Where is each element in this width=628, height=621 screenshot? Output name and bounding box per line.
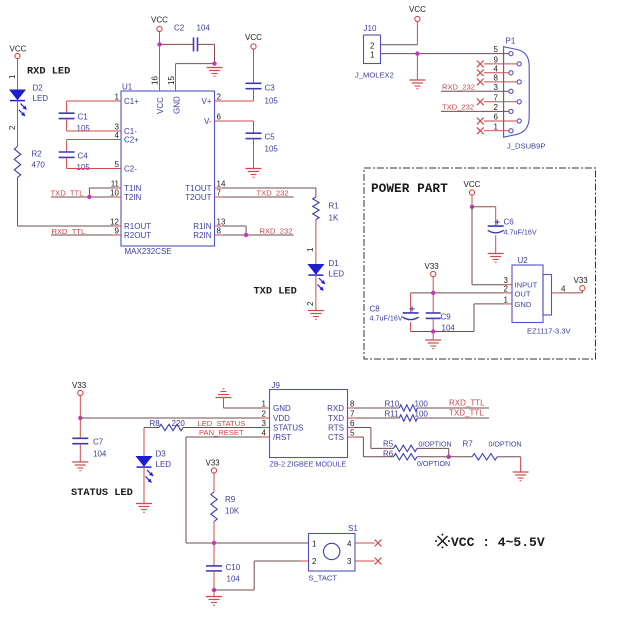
wire R7 to ground	[497, 457, 520, 472]
wire junction to R7	[449, 456, 472, 458]
connector J10	[355, 24, 394, 80]
svg-text:LED_STATUS: LED_STATUS	[198, 419, 246, 428]
svg-text:R2IN: R2IN	[193, 231, 211, 240]
wire D2 cathode to R2	[17, 101, 19, 147]
net label LED_STATUS	[198, 419, 246, 428]
wire RXD_TTL to R2OUT	[51, 234, 113, 236]
power symbol V33 (C9)	[425, 262, 440, 277]
pin number 2 of D1	[306, 301, 315, 306]
svg-text:LED: LED	[156, 460, 172, 469]
wire V33 to R9	[213, 473, 215, 492]
svg-text:TXD_TTL: TXD_TTL	[51, 189, 84, 198]
wire C2 to ground corner	[198, 44, 215, 63]
svg-text:TXD_232: TXD_232	[257, 188, 289, 197]
J9 pin numbers left	[262, 400, 267, 438]
J9 right pin stubs	[348, 408, 356, 437]
wire R6 right to junction	[417, 456, 449, 458]
ground (C7)	[72, 462, 88, 471]
svg-text:7: 7	[494, 93, 499, 102]
svg-text:4.7uF/16V: 4.7uF/16V	[504, 228, 537, 237]
svg-text:1: 1	[115, 93, 120, 102]
wire CTS pin5 to R6	[355, 437, 394, 457]
svg-text:2: 2	[370, 42, 375, 51]
svg-text:4: 4	[115, 131, 120, 140]
svg-text:2: 2	[8, 125, 17, 130]
svg-text:V33: V33	[72, 381, 87, 390]
junction R5 R6 R7	[447, 455, 451, 459]
capacitor C10	[206, 563, 241, 584]
capacitor C9	[426, 313, 456, 333]
svg-text:8: 8	[350, 400, 355, 409]
svg-text:VCC: VCC	[464, 180, 481, 189]
svg-text:TXD_TTL: TXD_TTL	[449, 408, 484, 417]
label TXD LED	[254, 286, 297, 298]
svg-text:12: 12	[110, 218, 119, 227]
net label TXD_232	[257, 188, 289, 197]
svg-text:J_DSUB9P: J_DSUB9P	[507, 142, 545, 151]
capacitor C4	[59, 152, 91, 173]
wire R2 to R1OUT pin 12	[18, 178, 114, 227]
svg-text:/RST: /RST	[273, 433, 291, 442]
resistor R7	[463, 440, 522, 460]
svg-text:R6: R6	[383, 449, 394, 458]
svg-text:4: 4	[347, 540, 352, 549]
svg-text:4: 4	[494, 64, 499, 73]
power symbol V33 (R9)	[206, 459, 221, 474]
resistor R8	[150, 419, 186, 431]
svg-text:105: 105	[265, 145, 279, 154]
svg-text:0/OPTION: 0/OPTION	[417, 460, 450, 468]
svg-text:VDD: VDD	[273, 414, 290, 423]
wire C8 to bottom rail	[410, 322, 412, 331]
svg-text:GND: GND	[273, 404, 291, 413]
wire U2 pin4 to V33	[560, 291, 583, 293]
label POWER PART	[371, 181, 448, 196]
wire S1 pin2 loop	[214, 561, 309, 590]
capacitor C2	[174, 24, 210, 52]
wire V33 down	[79, 396, 81, 418]
wire junction to C7	[79, 418, 81, 438]
power symbol VCC (power part)	[464, 180, 481, 195]
LED D2	[10, 84, 48, 117]
U2 pin numbers	[504, 276, 566, 304]
junction V33 rail	[431, 291, 435, 295]
svg-text:POWER PART: POWER PART	[371, 181, 448, 196]
wire R10 right RXD_TTL	[417, 407, 489, 409]
svg-text:1K: 1K	[329, 214, 339, 223]
svg-text:C2-: C2-	[124, 165, 137, 174]
svg-text:T1IN: T1IN	[124, 184, 142, 193]
svg-text:2: 2	[217, 93, 222, 102]
wire VCC to D2 anode	[17, 59, 19, 90]
svg-text:EZ1117-3.3V: EZ1117-3.3V	[527, 327, 572, 336]
wire junction to ground	[213, 590, 215, 597]
svg-text:11: 11	[111, 180, 120, 189]
module J9 ZB-2 ZIGBEE	[270, 381, 348, 469]
wire T1OUT to R1	[223, 188, 316, 197]
pin number 1 of D2	[8, 74, 17, 79]
svg-text:RXD LED: RXD LED	[27, 66, 70, 78]
svg-text:R7: R7	[463, 440, 474, 449]
svg-text:9: 9	[494, 55, 499, 64]
wire junction to ground	[416, 54, 418, 80]
svg-text:6: 6	[217, 113, 222, 122]
svg-text:105: 105	[265, 97, 279, 106]
svg-text:V33: V33	[574, 276, 589, 285]
svg-text:C8: C8	[370, 305, 381, 314]
svg-text:15: 15	[167, 76, 176, 85]
svg-text:S_TACT: S_TACT	[309, 574, 338, 583]
svg-text:C6: C6	[504, 218, 515, 227]
S1 pin3 no-connect	[355, 558, 381, 565]
svg-text:104: 104	[93, 450, 107, 459]
wire VCC to junction	[471, 195, 473, 207]
svg-text:OUT: OUT	[515, 290, 531, 299]
junction C9 ground	[431, 329, 435, 333]
wire J10 pin1 to DSUB pin5	[381, 53, 509, 55]
wire junction to C10	[213, 543, 215, 566]
op-amp U1 MAX232CSE box	[121, 83, 215, 257]
P1 no-connect pins with X marks	[477, 61, 517, 135]
ground (C10)	[206, 597, 222, 606]
wire D3 to ground	[143, 467, 145, 503]
S1 pin4 no-connect	[355, 540, 381, 547]
ground (D1)	[308, 311, 324, 320]
label RXD LED	[27, 66, 70, 78]
svg-text:100: 100	[415, 409, 429, 418]
wire R2IN RXD_232	[223, 234, 294, 236]
svg-text:U2: U2	[518, 256, 529, 265]
junction VCC C6	[470, 205, 474, 209]
wire RXD_232 to P1 pin3	[441, 90, 509, 92]
svg-text:P1: P1	[506, 37, 516, 46]
net label RXD_TTL (R10)	[449, 398, 485, 407]
resistor R9	[211, 492, 240, 522]
J9 left pin stubs	[262, 408, 270, 437]
svg-text:V33: V33	[425, 262, 440, 271]
svg-text:5: 5	[115, 160, 120, 169]
note VCC 4~5.5V	[435, 534, 545, 550]
J9 pin names left	[273, 404, 303, 442]
svg-text:9: 9	[115, 227, 120, 236]
svg-text:V33: V33	[206, 459, 221, 468]
wire C4 bottom to pin5	[67, 157, 113, 168]
svg-text:8: 8	[494, 73, 499, 82]
svg-text:VCC : 4~5.5V: VCC : 4~5.5V	[451, 535, 545, 550]
U2 pin stubs	[504, 285, 560, 304]
wire C9 branch	[432, 293, 434, 313]
ground above J9 (inverted)	[216, 389, 232, 398]
net label PAN_RESET	[199, 428, 244, 437]
svg-text:3: 3	[262, 419, 267, 428]
svg-text:5: 5	[494, 45, 499, 54]
svg-text:LED: LED	[329, 270, 345, 279]
svg-text:R2: R2	[32, 150, 43, 159]
svg-text:RXD: RXD	[327, 404, 344, 413]
svg-text:104: 104	[197, 24, 211, 33]
svg-text:J9: J9	[272, 381, 281, 390]
svg-text:2: 2	[504, 284, 509, 293]
ground (R7)	[513, 472, 529, 481]
svg-text:D1: D1	[329, 259, 340, 268]
capacitor C5	[246, 133, 279, 154]
wire RST to switch	[186, 437, 309, 543]
wire C5 to ground	[253, 139, 255, 169]
wire TXD_TTL to T2IN	[51, 196, 113, 198]
capacitor C6	[488, 218, 537, 237]
svg-text:1: 1	[262, 400, 267, 409]
svg-text:470: 470	[32, 161, 46, 170]
wire pin15 to ground net	[176, 64, 215, 91]
svg-text:8: 8	[217, 227, 222, 236]
U1 pin numbers top 16 15	[151, 76, 177, 85]
svg-text:1: 1	[504, 295, 509, 304]
net label RXD_232	[260, 227, 293, 236]
wire V33 to rail	[432, 277, 434, 293]
svg-text:220: 220	[172, 419, 186, 428]
U1 pin numbers right	[217, 93, 226, 236]
resistor R1	[313, 197, 340, 223]
wire C1 bottom to pin3	[67, 119, 113, 131]
connector P1 J_DSUB9P	[504, 37, 546, 151]
junction C10 ground	[212, 588, 216, 592]
svg-text:0/OPTION: 0/OPTION	[489, 441, 522, 449]
svg-text:C7: C7	[93, 438, 104, 447]
J9 pin names right	[327, 404, 344, 442]
junction C2 ground	[212, 61, 216, 65]
ground (J10)	[409, 80, 425, 89]
svg-text:R1OUT: R1OUT	[124, 222, 151, 231]
svg-text:MAX232CSE: MAX232CSE	[125, 247, 172, 256]
J9 pin numbers right	[350, 400, 355, 438]
switch S1 S_TACT	[309, 524, 359, 583]
svg-text:LED: LED	[33, 94, 49, 103]
svg-text:VCC: VCC	[10, 45, 27, 54]
svg-text:T2IN: T2IN	[124, 193, 142, 202]
wire VCC to C2	[160, 43, 194, 45]
svg-text:1: 1	[306, 247, 315, 252]
svg-text:10K: 10K	[225, 507, 240, 516]
svg-text:VCC: VCC	[156, 97, 165, 114]
svg-text:STATUS: STATUS	[273, 424, 303, 433]
svg-text:10: 10	[110, 189, 119, 198]
svg-text:R10: R10	[385, 399, 400, 408]
svg-text:7: 7	[350, 410, 355, 419]
svg-text:13: 13	[217, 218, 226, 227]
capacitor C8	[370, 305, 419, 323]
svg-text:100: 100	[415, 399, 429, 408]
svg-text:4: 4	[262, 429, 267, 438]
svg-text:3: 3	[347, 557, 352, 566]
svg-text:R8: R8	[150, 419, 161, 428]
svg-text:R1IN: R1IN	[193, 222, 211, 231]
P1 pin numbers	[494, 45, 499, 131]
wire T2OUT TXD_232	[223, 196, 294, 198]
svg-text:C2+: C2+	[124, 136, 139, 145]
svg-text:GND: GND	[173, 96, 182, 114]
ground (C6)	[488, 254, 504, 263]
svg-text:C3: C3	[265, 84, 276, 93]
wire V33 rail to VDD	[80, 417, 262, 419]
LED D1	[308, 259, 344, 291]
wire C4 top pin4	[67, 140, 113, 153]
power symbol V33 (C7)	[72, 381, 87, 396]
label STATUS LED	[71, 487, 133, 499]
wire C7 to ground	[79, 444, 81, 462]
junction J10 pin1	[415, 51, 419, 55]
wire C6 to ground	[495, 235, 497, 253]
capacitor C3	[246, 83, 279, 105]
net label TXD_TTL	[51, 189, 84, 198]
power symbol VCC (RXD LED branch)	[10, 45, 27, 59]
svg-text:6: 6	[494, 113, 499, 122]
svg-text:1: 1	[494, 122, 499, 131]
LED D3	[137, 450, 172, 483]
svg-text:C1: C1	[78, 113, 89, 122]
ground (D3)	[136, 504, 152, 513]
U1 left pin stubs	[113, 101, 121, 235]
svg-text:D3: D3	[156, 450, 167, 459]
wire D1 to ground	[315, 275, 317, 310]
pin number 2 of D2	[8, 125, 17, 130]
svg-text:7: 7	[217, 189, 222, 198]
net label TXD_TTL (R11)	[449, 408, 484, 417]
resistor R10	[385, 399, 429, 411]
junction T1IN T2IN	[87, 195, 91, 199]
wire RXD pin8 to R10	[355, 407, 399, 409]
power part dashed border	[364, 168, 596, 359]
resistor R2	[14, 147, 45, 178]
svg-text:5: 5	[350, 429, 355, 438]
svg-text:R9: R9	[225, 495, 236, 504]
svg-text:D2: D2	[33, 84, 44, 93]
wire VCC to pin16	[159, 32, 161, 91]
svg-text:3: 3	[494, 83, 499, 92]
P1 pin circles	[509, 52, 521, 133]
U1 pin numbers left	[110, 93, 119, 236]
capacitor C1	[59, 113, 91, 134]
svg-text:14: 14	[217, 180, 226, 189]
svg-text:R1: R1	[329, 202, 340, 211]
svg-text:0/OPTION: 0/OPTION	[419, 441, 452, 449]
U1 pin names top VCC GND	[156, 96, 182, 114]
junction V33 C7	[78, 416, 82, 420]
ground (C9)	[425, 340, 441, 349]
svg-text:ZB-2 ZIGBEE MODULE: ZB-2 ZIGBEE MODULE	[270, 460, 347, 469]
resistor R6	[383, 449, 450, 468]
svg-text:INPUT: INPUT	[515, 281, 538, 290]
svg-text:PAN_RESET: PAN_RESET	[199, 428, 244, 437]
resistor R11	[385, 409, 429, 421]
wire R8 to STATUS pin	[183, 427, 262, 429]
svg-text:C5: C5	[265, 133, 276, 142]
junction R9 switch	[212, 541, 216, 545]
svg-text:TXD: TXD	[328, 414, 344, 423]
svg-text:C4: C4	[78, 152, 89, 161]
resistor R5	[383, 440, 452, 452]
svg-text:J10: J10	[364, 24, 377, 33]
wire R9 to junction	[213, 522, 215, 544]
svg-text:T1OUT: T1OUT	[185, 184, 211, 193]
svg-text:RTS: RTS	[328, 424, 344, 433]
wire R8 left to D3	[144, 428, 159, 457]
wire RTS pin6 to R5	[355, 428, 394, 449]
svg-text:105: 105	[77, 163, 91, 172]
svg-text:2: 2	[306, 301, 315, 306]
power symbol VCC (U1)	[151, 16, 168, 32]
svg-text:VCC: VCC	[409, 5, 426, 14]
wire VCC down to J10 pin2	[381, 22, 418, 45]
wire R1IN jog	[223, 226, 247, 235]
svg-text:VCC: VCC	[151, 16, 168, 25]
wire junction to ground symbol	[432, 332, 434, 341]
svg-text:U1: U1	[122, 83, 133, 92]
svg-text:C10: C10	[226, 563, 241, 572]
ground (C5)	[246, 169, 262, 178]
svg-text:TXD_232: TXD_232	[442, 102, 474, 111]
wire C10 to bottom junction	[213, 571, 215, 590]
svg-text:4.7uF/16V: 4.7uF/16V	[370, 314, 403, 323]
wire V- pin6 to C5	[223, 121, 254, 133]
svg-text:J_MOLEX2: J_MOLEX2	[355, 71, 394, 80]
wire OUT rail	[411, 292, 504, 294]
svg-text:RXD_232: RXD_232	[442, 82, 475, 91]
U1 pin names left	[124, 97, 151, 240]
svg-text:2: 2	[312, 557, 317, 566]
svg-text:C9: C9	[441, 313, 452, 322]
wire VCC junction to U2 INPUT	[472, 207, 504, 285]
net label TXD_232 (P1)	[442, 102, 474, 111]
svg-text:R5: R5	[383, 440, 394, 449]
svg-text:GND: GND	[515, 300, 532, 309]
wire TXD pin7 to R11	[355, 417, 399, 419]
svg-text:STATUS LED: STATUS LED	[71, 487, 133, 499]
junction VCC C2	[157, 42, 161, 46]
svg-text:CTS: CTS	[328, 433, 344, 442]
U1 pin names right	[185, 97, 212, 240]
wire C8 branch	[410, 293, 412, 313]
svg-text:C2: C2	[174, 24, 185, 33]
wire C9 to bottom rail	[432, 318, 434, 331]
svg-text:TXD LED: TXD LED	[254, 286, 297, 298]
junction R1IN R2IN	[244, 233, 248, 237]
ground (C2)	[207, 68, 223, 77]
svg-text:1: 1	[8, 74, 17, 79]
svg-text:RXD_TTL: RXD_TTL	[449, 398, 485, 407]
svg-text:2: 2	[494, 103, 499, 112]
svg-text:1: 1	[370, 51, 375, 60]
svg-text:S1: S1	[348, 524, 358, 533]
wire T1IN jog	[89, 188, 113, 197]
svg-text:2: 2	[262, 410, 267, 419]
regulator U2	[512, 256, 572, 336]
svg-text:VCC: VCC	[245, 33, 262, 42]
wire junction to C6	[472, 207, 496, 226]
wire TXD_232 to P1 pin2	[441, 110, 509, 112]
power symbol VCC (J10)	[409, 5, 426, 22]
net label RXD_TTL	[52, 227, 86, 236]
wire C1 loop pin1	[67, 101, 113, 113]
pin number 1 of D1	[306, 247, 315, 252]
svg-text:104: 104	[227, 575, 241, 584]
power symbol VCC (C3)	[245, 33, 262, 49]
wire bottom rail to GND pin	[411, 304, 504, 332]
svg-text:16: 16	[151, 76, 160, 85]
wire C3 to V+ pin2	[223, 89, 254, 101]
wire VCC to C3	[253, 49, 255, 83]
net label RXD_232 (P1)	[442, 82, 475, 91]
svg-text:RXD_232: RXD_232	[260, 227, 293, 236]
